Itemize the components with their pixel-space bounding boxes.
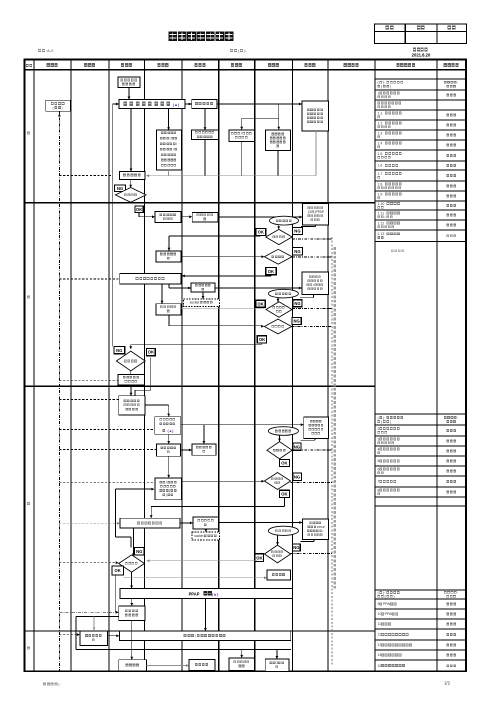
education training wide box xyxy=(119,631,290,641)
svg-text:OK: OK xyxy=(148,350,154,355)
material class ellipse 3 xyxy=(268,427,298,436)
NG tag parts material xyxy=(293,473,302,480)
svg-text:OK: OK xyxy=(115,568,121,573)
NG tag sample check2 xyxy=(292,317,301,324)
svg-text:·: · xyxy=(457,80,458,84)
NG dashed wire 6 xyxy=(291,482,332,484)
approval table top-right xyxy=(375,24,467,44)
svg-text:OK: OK xyxy=(259,337,265,342)
svg-text:1.13: 1.13 xyxy=(378,232,385,236)
svg-text:)·: )· xyxy=(383,81,385,85)
svg-text:/: / xyxy=(170,136,171,140)
svg-text:2: 2 xyxy=(378,427,380,431)
OK elbow to sample data box xyxy=(284,497,286,506)
NG tag material check xyxy=(293,228,303,235)
formal quote box xyxy=(118,374,145,385)
main table outer border xyxy=(25,60,467,672)
svg-text:/: / xyxy=(322,529,323,533)
parts outsourcing box 2 xyxy=(193,517,219,529)
svg-text:NG: NG xyxy=(293,545,299,550)
incoming check diamond xyxy=(267,442,292,459)
header labels xyxy=(26,64,29,67)
wire to outsourcing detail box xyxy=(215,287,302,289)
wire request to implement box xyxy=(168,456,170,478)
dashed customer branch to judge box xyxy=(59,278,116,280)
supplier decision box xyxy=(192,100,217,109)
outsourcing detail box 2 xyxy=(302,519,328,539)
drop from acceptance to detail box xyxy=(168,109,170,131)
production equipment confirm box xyxy=(229,658,254,671)
gray collector horizontal to quote box xyxy=(146,175,316,177)
column lines xyxy=(33,60,35,672)
svg-text:12: 12 xyxy=(378,633,382,637)
svg-text:): ) xyxy=(62,106,63,110)
OK wire into result judge box xyxy=(270,275,272,276)
material survey worksheet box xyxy=(192,130,219,139)
svg-text:/: / xyxy=(385,215,386,219)
OK drop wire xyxy=(114,575,116,612)
svg-text:4: 4 xyxy=(378,447,380,451)
wire outsourcing box to ellipse2 xyxy=(313,294,315,297)
wire confirm to sample check2 diamond xyxy=(168,315,170,326)
NG tag mp check xyxy=(293,544,301,551)
NG tag sample check xyxy=(293,248,303,255)
dashed branch to resource box xyxy=(59,634,77,636)
customer dash-dot vertical line xyxy=(58,111,60,670)
svg-text:1.7: 1.7 xyxy=(378,172,383,176)
detail contents tall box xyxy=(156,130,181,170)
supplier requirement box xyxy=(302,101,329,131)
svg-text:1.2: 1.2 xyxy=(378,121,383,125)
customer order confirm box xyxy=(46,100,70,111)
material submit box xyxy=(304,417,329,439)
svg-text:1.12: 1.12 xyxy=(378,221,385,225)
wire to outsourcing detail box 2 xyxy=(219,522,303,524)
dash-dot branch to delivery box xyxy=(59,611,115,613)
NG tag outsourcing check xyxy=(293,300,302,307)
customer sample delivery box xyxy=(119,606,145,621)
svg-text:OK: OK xyxy=(136,207,142,212)
OK tag material check xyxy=(256,228,266,235)
data confirm box xyxy=(119,660,147,671)
gray wire OK to customer confirm 3 xyxy=(147,560,258,562)
sample data confirm box xyxy=(120,518,180,528)
parts material check diamond xyxy=(264,473,290,490)
OK tag sample check2 xyxy=(257,336,266,343)
dashed branch to formal quote xyxy=(59,380,118,382)
svg-text:): ) xyxy=(390,85,391,89)
revision date xyxy=(413,48,416,52)
svg-text:14: 14 xyxy=(378,653,382,657)
wire confirm to tech process box xyxy=(145,404,169,406)
svg-text:): ) xyxy=(166,493,167,497)
svg-text:/: / xyxy=(173,147,174,151)
arrow quote to customer-confirm diamond xyxy=(130,180,132,188)
OK elbow to order number box xyxy=(123,577,267,579)
OK tag outsourcing check xyxy=(256,300,265,307)
material check diamond xyxy=(266,229,292,244)
handmade sample parts box xyxy=(156,251,181,262)
svg-text:(▲): (▲) xyxy=(212,591,219,596)
wire PPAP to education box xyxy=(204,599,206,632)
new product requirement acceptance box xyxy=(119,100,185,109)
NG tag band4 xyxy=(135,548,145,555)
parts outsourcing box 1 xyxy=(191,283,215,292)
handmade sample material box xyxy=(155,212,181,223)
OK tag mp check xyxy=(255,554,263,562)
svg-text:NG: NG xyxy=(294,444,300,449)
svg-text:OK: OK xyxy=(256,555,262,560)
svg-text:PPAP: PPAP xyxy=(317,525,325,529)
check result judge box xyxy=(120,274,181,285)
NG tag band1 xyxy=(115,185,126,192)
svg-text:(▲): (▲) xyxy=(173,102,180,107)
product class ellipse 4 xyxy=(268,526,298,535)
svg-text:/: / xyxy=(176,142,177,146)
branch to process/check boxes xyxy=(278,104,280,118)
OK tag incoming xyxy=(280,459,290,466)
production process implement box xyxy=(155,478,182,500)
svg-text:15: 15 xyxy=(378,664,382,668)
tech process making box xyxy=(155,417,181,435)
dashed branch b3c xyxy=(59,449,156,451)
svg-text:·: · xyxy=(457,416,458,420)
wire confirm3 to PPAP box xyxy=(131,572,133,588)
sample check diamond 2 xyxy=(264,319,291,334)
svg-text:1.6: 1.6 xyxy=(378,164,383,168)
wire to raw material supply box xyxy=(218,216,302,218)
svg-text:5: 5 xyxy=(378,459,380,463)
customer confirm diamond band4 xyxy=(119,555,145,572)
OK elbow into confirm box xyxy=(150,358,152,391)
svg-text:10: 10 xyxy=(378,612,382,616)
new product dev request box xyxy=(118,77,140,88)
phase band lines xyxy=(25,202,376,204)
NG dashed wire 1 xyxy=(292,238,332,240)
right list: band3 rows xyxy=(375,598,466,600)
sample material purchase box xyxy=(192,213,218,223)
dashed branch to quote xyxy=(59,175,112,177)
trial mould confirm box xyxy=(189,660,215,671)
made-date label xyxy=(230,49,233,52)
dashed branch b3b xyxy=(59,429,154,431)
OK tag sample check xyxy=(266,268,277,275)
sample check diamond xyxy=(264,249,292,264)
svg-text:)·: )· xyxy=(383,416,385,420)
svg-text:NG: NG xyxy=(116,348,122,353)
svg-text:OK: OK xyxy=(258,229,264,234)
svg-text:):: ): xyxy=(244,48,246,53)
raw material supply box xyxy=(302,204,328,225)
material class ellipse 1 xyxy=(269,216,298,225)
new product quote box xyxy=(120,172,146,180)
svg-text:1.5: 1.5 xyxy=(378,152,383,156)
socket outsourcing dotted box 2 xyxy=(192,532,220,540)
svg-text:6: 6 xyxy=(378,467,380,471)
material tech request box xyxy=(157,444,181,456)
NG dashed wire 2 xyxy=(292,256,332,258)
wire to material submit box xyxy=(181,424,304,426)
NG feedback elbow band4 xyxy=(116,488,152,490)
svg-text:1: 1 xyxy=(378,91,380,95)
incoming resource survey box xyxy=(80,631,108,645)
svg-text:·: · xyxy=(457,591,458,595)
svg-text:1/2: 1/2 xyxy=(444,681,450,686)
feedback vertical line xyxy=(112,104,114,347)
svg-text:1.9: 1.9 xyxy=(378,192,383,196)
judge to parts outsourcing box xyxy=(168,284,170,288)
material ticket purchase box xyxy=(192,444,216,455)
svg-text:7: 7 xyxy=(378,480,380,484)
svg-text:NG: NG xyxy=(294,301,300,306)
svg-text:OK: OK xyxy=(281,491,287,496)
right list: big empty cell 1 xyxy=(391,249,394,252)
svg-text:11: 11 xyxy=(378,622,382,626)
svg-text:NG: NG xyxy=(294,229,300,234)
new product drawing confirm box xyxy=(119,396,146,415)
customer confirm diamond band1 xyxy=(115,188,146,203)
OK tag band1 xyxy=(135,206,143,213)
dashed branch to confirm3 xyxy=(59,562,115,564)
socket outsourcing dotted box 1 xyxy=(184,299,220,306)
OK tag band2 bottom xyxy=(146,349,155,356)
svg-text:NG: NG xyxy=(294,249,300,254)
svg-text:/: / xyxy=(241,132,242,136)
svg-text::A-0: :A-0 xyxy=(46,48,54,53)
svg-text:OK: OK xyxy=(281,461,287,466)
drop from supplier box xyxy=(204,108,206,130)
NG collector dotted vertical xyxy=(331,237,333,666)
svg-text:3: 3 xyxy=(276,661,278,665)
gray collector verticals xyxy=(168,170,170,176)
svg-text:1.8: 1.8 xyxy=(378,182,383,186)
outsourcing detail box 1 xyxy=(302,272,329,294)
OK path to customer confirm 2 xyxy=(261,343,263,344)
gray arrow to trial mould box xyxy=(146,665,186,667)
svg-text:8: 8 xyxy=(378,488,380,492)
wire to supplier requirement box xyxy=(217,103,302,105)
svg-text:1.11: 1.11 xyxy=(378,211,385,215)
svg-text:(▲): (▲) xyxy=(168,429,175,433)
svg-text:): ) xyxy=(393,595,394,599)
gray wire confirm to outsourcing diamond xyxy=(181,307,265,309)
svg-text:): ) xyxy=(390,420,391,424)
product class ellipse 2 xyxy=(268,289,298,298)
svg-text:(3: (3 xyxy=(308,210,311,214)
title xyxy=(169,32,178,41)
header row line xyxy=(25,69,467,71)
wire submit box to ellipse3 xyxy=(314,438,316,440)
NG tag band2 bottom xyxy=(114,347,125,354)
material process check diamond xyxy=(264,545,290,563)
svg-text:NG: NG xyxy=(117,186,123,191)
svg-text:2021.8.20: 2021.8.20 xyxy=(412,52,431,57)
svg-text:/: / xyxy=(313,283,314,287)
svg-text:9: 9 xyxy=(378,602,380,606)
OK tag band4 xyxy=(112,566,123,575)
right list: band2 rows xyxy=(375,424,466,426)
order number box xyxy=(267,570,291,580)
wire supply box to ellipse1 xyxy=(314,225,316,227)
inspection feasibility box xyxy=(266,130,291,151)
svg-text:PPAP: PPAP xyxy=(189,591,200,596)
sample check confirm box xyxy=(156,304,181,315)
process flow confirm box xyxy=(229,130,255,142)
NG dashed wire 7 xyxy=(291,553,332,555)
gray dashed branch to sample data xyxy=(59,522,117,524)
dashed branch b3a xyxy=(59,399,118,401)
wire outsourcing2 box to ellipse4 xyxy=(313,539,315,541)
svg-text:1.3: 1.3 xyxy=(378,131,383,135)
PPAP submit wide box xyxy=(120,589,292,599)
NG dashed wire 4 xyxy=(292,326,332,328)
svg-text:13: 13 xyxy=(378,643,382,647)
svg-text:OK: OK xyxy=(268,269,274,274)
phase markers xyxy=(27,132,30,135)
right list: big empty cell 2 xyxy=(375,589,466,591)
svg-text:1.1: 1.1 xyxy=(378,111,383,115)
doc number label xyxy=(38,49,41,52)
svg-text:)PPAP: )PPAP xyxy=(315,210,324,214)
svg-text:1.4: 1.4 xyxy=(378,141,383,145)
svg-text:/: / xyxy=(166,480,167,484)
three batch data box xyxy=(265,659,289,671)
svg-text:3: 3 xyxy=(378,437,380,441)
NG dashed wire 5 xyxy=(292,449,332,451)
customer confirm diamond band2 xyxy=(116,351,145,371)
big elbow wire left-down-right xyxy=(76,616,119,618)
wire parts to sample check diamond xyxy=(181,256,264,258)
wire diamond to formal quote box xyxy=(130,371,132,375)
NG dashed wire 3 xyxy=(292,307,332,309)
svg-text:OK: OK xyxy=(257,301,263,306)
OK to handmade sample box xyxy=(138,213,140,217)
vertical caption: NG feedback note in quality-info column xyxy=(334,247,336,589)
svg-text:1.10: 1.10 xyxy=(378,202,385,206)
NG tag incoming xyxy=(293,443,301,450)
dashed branch b3d xyxy=(59,481,154,483)
svg-text:NG: NG xyxy=(294,474,300,479)
right list: band1 rows xyxy=(375,78,466,80)
drop into data confirm box xyxy=(131,621,133,660)
outsourcing check diamond xyxy=(266,302,292,318)
OK return path to parts box xyxy=(260,234,262,237)
wire implement to parts material check xyxy=(182,480,265,482)
wire sample data to customer confirm 3 xyxy=(132,528,134,555)
svg-text:socket: socket xyxy=(190,300,200,304)
svg-text:NG: NG xyxy=(293,319,299,324)
OK tag parts material xyxy=(280,490,290,497)
footer doc number xyxy=(43,683,46,686)
svg-text:NG: NG xyxy=(136,549,142,554)
svg-text:socket: socket xyxy=(194,534,203,538)
